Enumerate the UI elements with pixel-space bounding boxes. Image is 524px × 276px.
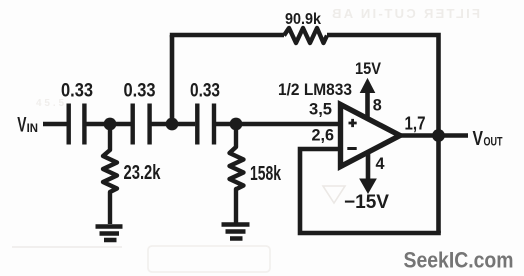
svg-text:2,6: 2,6 — [312, 127, 335, 145]
wire feedback rail left segment — [170, 33, 284, 38]
wire C3 to op-amp + input through node 3 — [214, 122, 340, 127]
resistor R1 23.2k shunt — [103, 130, 117, 224]
svg-text:V: V — [473, 127, 484, 150]
capacitor C3 0.33 — [197, 104, 214, 145]
output node junction dot — [432, 129, 445, 142]
label VOUT — [473, 127, 503, 150]
svg-text:1,7: 1,7 — [405, 114, 426, 134]
svg-text:90.9k: 90.9k — [285, 11, 321, 28]
ground for R1 — [96, 227, 123, 241]
label VIN — [17, 113, 38, 137]
negative supply arrow -15V pin 4 — [360, 152, 376, 193]
wire op-amp output to VOUT — [400, 133, 468, 138]
svg-text:SeekIC.com: SeekIC.com — [404, 248, 514, 273]
node 2 junction dot — [166, 118, 179, 131]
node 1 junction dot — [104, 118, 117, 131]
svg-text:0.33: 0.33 — [61, 81, 93, 102]
svg-text:−15V: −15V — [344, 192, 389, 213]
capacitor C2 0.33 — [133, 104, 150, 145]
wire VIN to C1 — [43, 122, 67, 127]
svg-text:15V: 15V — [355, 60, 381, 78]
svg-text:1/2 LM833: 1/2 LM833 — [278, 81, 352, 99]
wire C1 to C2 through node 1 — [84, 122, 130, 127]
faint bleed-through box bottom left — [12, 246, 270, 272]
wire C2 to C3 through node 2 — [150, 122, 196, 127]
svg-text:8: 8 — [373, 97, 382, 115]
wire node 2 up to feedback rail — [170, 35, 175, 124]
svg-text:V: V — [17, 113, 27, 137]
faint bleed-through triangle under op-amp — [323, 186, 345, 203]
op-amp U1 1/2 LM833 — [341, 105, 401, 167]
wire feedback rail right segment and down to output node — [327, 33, 439, 233]
svg-text:4: 4 — [376, 155, 386, 173]
svg-text:OUT: OUT — [484, 136, 503, 148]
positive supply arrow 15V pin 8 — [361, 79, 375, 119]
node 3 junction dot — [230, 118, 243, 131]
svg-text:158k: 158k — [250, 163, 282, 185]
svg-text:IN: IN — [27, 123, 38, 135]
svg-text:23.2k: 23.2k — [124, 162, 162, 184]
svg-text:0.33: 0.33 — [190, 81, 220, 102]
resistor R3 90.9k feedback — [284, 28, 327, 43]
svg-text:3,5: 3,5 — [309, 101, 332, 119]
resistor R2 158k shunt — [230, 130, 244, 224]
ground for R2 — [222, 225, 250, 239]
svg-text:0.33: 0.33 — [124, 81, 156, 102]
wire inverting input feedback loop — [298, 147, 441, 233]
capacitor C1 0.33 — [69, 104, 85, 145]
faint bleed-through text top right — [332, 6, 480, 21]
